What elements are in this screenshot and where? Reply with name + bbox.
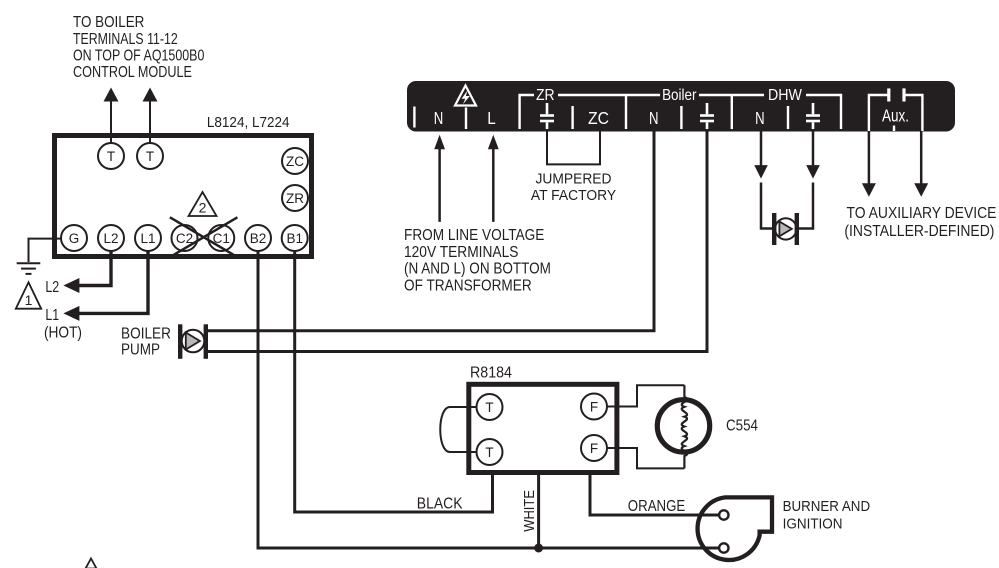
svg-text:ZC: ZC — [286, 154, 304, 169]
svg-text:B2: B2 — [250, 231, 267, 246]
svg-text:L1: L1 — [140, 231, 155, 246]
svg-text:Aux.: Aux. — [882, 107, 909, 126]
svg-text:G: G — [69, 231, 80, 246]
svg-text:AT FACTORY: AT FACTORY — [531, 188, 617, 204]
svg-text:N: N — [434, 109, 443, 128]
svg-text:T: T — [107, 149, 115, 164]
svg-text:(N AND L) ON BOTTOM: (N AND L) ON BOTTOM — [404, 261, 551, 278]
svg-text:L: L — [487, 109, 495, 128]
svg-text:L8124, L7224: L8124, L7224 — [207, 114, 290, 131]
svg-text:N: N — [755, 109, 764, 128]
svg-text:Boiler: Boiler — [662, 87, 697, 104]
svg-text:L2: L2 — [103, 231, 118, 246]
svg-text:ZR: ZR — [286, 191, 304, 206]
svg-text:B1: B1 — [286, 231, 303, 246]
svg-text:T: T — [146, 149, 154, 164]
svg-text:R8184: R8184 — [470, 365, 512, 382]
svg-text:DHW: DHW — [768, 88, 802, 105]
svg-text:TERMINALS 11-12: TERMINALS 11-12 — [73, 30, 178, 48]
svg-text:ZR: ZR — [536, 87, 555, 104]
svg-text:CONTROL MODULE: CONTROL MODULE — [73, 64, 192, 82]
svg-text:L1: L1 — [45, 307, 59, 325]
svg-text:FROM LINE VOLTAGE: FROM LINE VOLTAGE — [404, 227, 544, 244]
svg-text:(INSTALLER-DEFINED): (INSTALLER-DEFINED) — [844, 222, 994, 240]
svg-text:F: F — [590, 399, 598, 414]
svg-text:WHITE: WHITE — [520, 490, 537, 532]
svg-text:2: 2 — [199, 200, 207, 216]
svg-text:T: T — [485, 400, 493, 415]
svg-text:T: T — [485, 445, 493, 460]
svg-text:ON TOP OF AQ1500B0: ON TOP OF AQ1500B0 — [73, 47, 204, 65]
svg-text:C554: C554 — [726, 418, 758, 435]
svg-text:120V TERMINALS: 120V TERMINALS — [404, 243, 518, 261]
svg-text:(HOT): (HOT) — [44, 325, 82, 342]
svg-text:BURNER AND: BURNER AND — [783, 498, 870, 515]
svg-text:TO BOILER: TO BOILER — [73, 14, 144, 31]
svg-text:N: N — [649, 109, 658, 128]
svg-text:ORANGE: ORANGE — [628, 498, 686, 515]
svg-text:OF TRANSFORMER: OF TRANSFORMER — [404, 277, 532, 294]
svg-text:BLACK: BLACK — [417, 495, 463, 513]
svg-text:BOILER: BOILER — [121, 326, 171, 343]
svg-text:1: 1 — [25, 292, 33, 308]
svg-text:IGNITION: IGNITION — [783, 516, 843, 533]
svg-text:JUMPERED: JUMPERED — [536, 171, 612, 187]
svg-text:F: F — [590, 441, 598, 456]
svg-text:TO AUXILIARY DEVICE: TO AUXILIARY DEVICE — [847, 204, 997, 222]
svg-text:PUMP: PUMP — [121, 342, 160, 359]
svg-text:L2: L2 — [45, 279, 59, 297]
svg-text:ZC: ZC — [588, 108, 609, 128]
